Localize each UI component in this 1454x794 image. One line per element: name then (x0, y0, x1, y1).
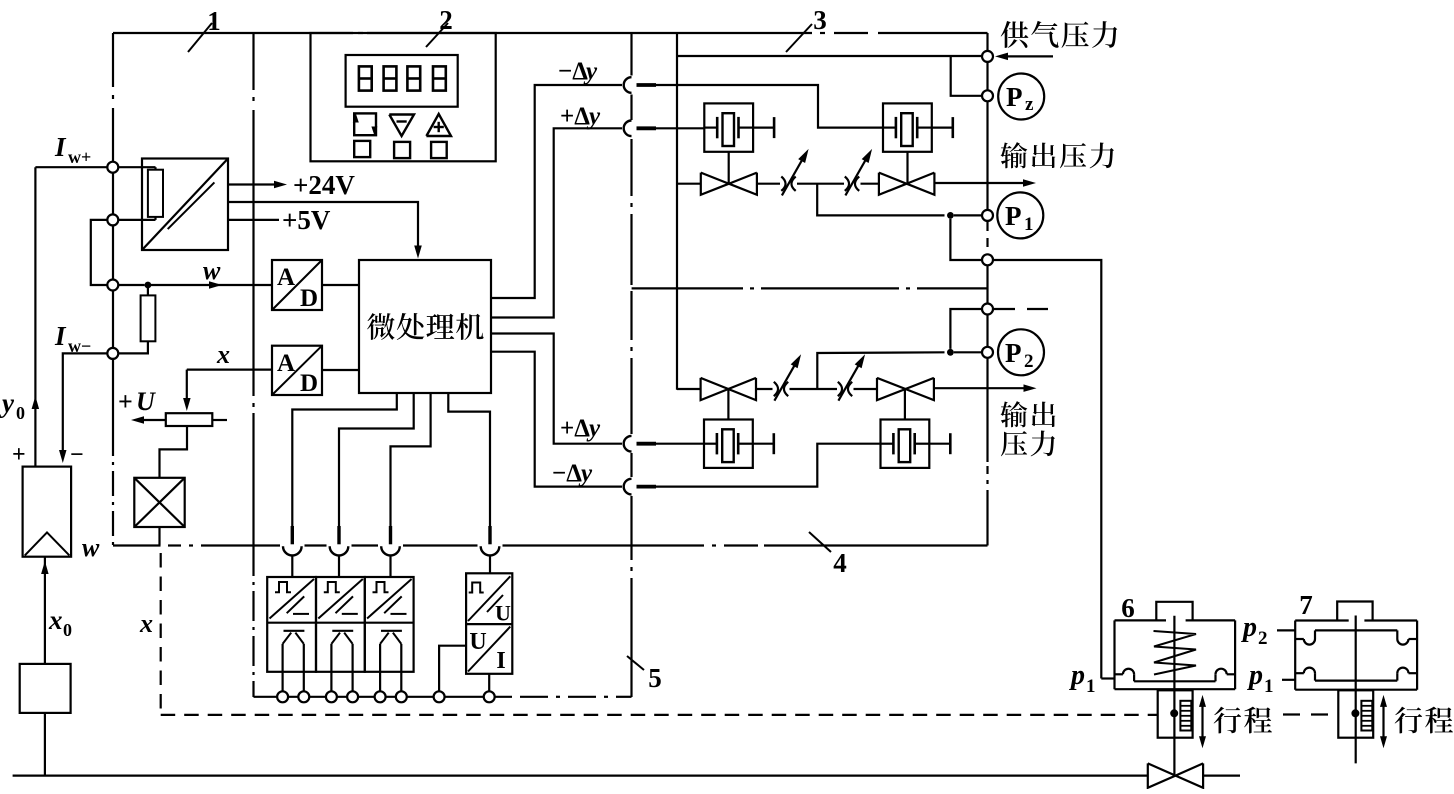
wire sensor to process line (44, 713, 46, 776)
svg-text:P: P (1006, 82, 1023, 112)
wire P1 node to output port (950, 219, 982, 260)
svg-text:1: 1 (1086, 676, 1096, 697)
piezo pilot valve V1 upper-left (704, 103, 753, 151)
wire restrictor to restrictor upper (797, 183, 844, 185)
stub p2 actuator 7 (1277, 629, 1295, 631)
connector pin +dy upper (637, 126, 657, 130)
connector pin -dy lower (637, 485, 657, 489)
wire p1 into actuator 6 (1101, 677, 1114, 679)
junction dot w node (145, 282, 152, 289)
svg-text:P: P (1005, 338, 1022, 368)
svg-text:P: P (1005, 201, 1022, 231)
potentiometer right stub (212, 419, 227, 421)
microprocessor box (359, 260, 491, 393)
wire micro bottom output C (391, 393, 431, 527)
junction dot P1 branch (947, 212, 954, 219)
port circle supply (982, 51, 993, 62)
wire valve to restrictor lower (756, 388, 773, 390)
bottom connector socket A (283, 546, 302, 555)
wire socket C down (389, 556, 391, 578)
actuator 6 body (1115, 619, 1167, 621)
enclosure 1 top border (dash-dot) (113, 32, 353, 34)
svg-text:1: 1 (1024, 214, 1034, 235)
pneumatic section right border x=987.5 (986, 33, 988, 219)
pressure gauge Pz (998, 74, 1044, 120)
dashed stub output port 2 (994, 308, 1015, 310)
restrictor 2 upper (845, 177, 849, 191)
7-segment digit 4 (433, 66, 446, 90)
svg-text:z: z (1025, 94, 1034, 115)
minus button icon (triangle down) (389, 115, 414, 137)
potentiometer wiper arrow (186, 370, 188, 402)
svg-text:0: 0 (16, 403, 25, 423)
bottom connector pin B (337, 526, 340, 544)
actuator 6 stem (1173, 616, 1175, 776)
wire resistor to Iw- terminal (118, 341, 148, 353)
svg-text:−: − (70, 442, 84, 468)
power supply converter box (142, 159, 228, 251)
wire Iw+ to feedback comparator (35, 166, 107, 168)
piezo pilot valve V3 lower-left (704, 420, 753, 468)
terminal circle U/I bottom (484, 691, 495, 702)
boundary 5 bottom y=697 (dash-dot) (254, 696, 513, 698)
valve driver module 1 (267, 577, 316, 672)
wire socket D down (489, 556, 491, 574)
dashed mechanical link x vertical (160, 553, 162, 715)
actuator 6 diaphragm chamber (1115, 673, 1123, 675)
branch to Pz gauge (951, 56, 982, 96)
wire circle1 to power supply (118, 166, 155, 168)
right border dashed section between P1 ports (986, 222, 988, 252)
callout slash 1 (188, 23, 212, 52)
exhaust valve upper (bowtie) (879, 173, 907, 195)
valve driver module 3 (365, 577, 414, 672)
wire restrictor to exhaust valve lower (854, 388, 878, 390)
actuator 7 position scale (1361, 701, 1372, 731)
svg-text:p: p (1241, 612, 1257, 643)
wire midpoint to P2 port (817, 352, 944, 389)
svg-text:y: y (586, 103, 601, 130)
label supply pressure 供气压力 (1001, 21, 1029, 48)
enclosure 1 left border (dash-dot) (112, 33, 114, 87)
svg-text:D: D (300, 370, 318, 397)
piezo valve V3 lower-left right terminator (753, 443, 774, 445)
connector pin -dy upper (637, 83, 657, 87)
driver 1 output stage symbol (284, 630, 305, 632)
actuator 6 stroke arrow (1201, 699, 1203, 744)
wire x to A/D 2 (187, 369, 272, 371)
actuator 7 body (1295, 619, 1349, 621)
svg-text:0: 0 (63, 620, 72, 640)
feedback potentiometer (166, 413, 213, 426)
port circle output 1 (982, 254, 993, 265)
signal arrow y0 up (32, 396, 39, 409)
wire midpoint to P1 port (817, 184, 944, 216)
driver 3 output stage symbol (381, 630, 402, 632)
actuator 6 stem position dot (1170, 709, 1178, 717)
svg-text:U: U (495, 601, 511, 626)
svg-text:U: U (136, 387, 156, 416)
svg-text:y: y (578, 460, 593, 487)
piezo valve V4 lower-right right terminator (929, 443, 950, 445)
wire micro bottom output B (339, 393, 414, 527)
svg-text:x: x (139, 609, 153, 638)
svg-text:A: A (277, 350, 295, 377)
callout slash 4 (809, 532, 831, 552)
wire Iw- to comparator minus input (63, 353, 108, 452)
bottom connector socket B (330, 546, 349, 555)
svg-text:2: 2 (1258, 628, 1268, 649)
piezo pilot valve V4 lower-right (881, 420, 930, 468)
svg-text:+Δ: +Δ (560, 415, 590, 442)
boundary 1/2 divider x=253 (dash-dot) (252, 33, 254, 90)
actuator 7 stroke arrow (1382, 699, 1384, 744)
terminal circle 3 (107, 280, 118, 291)
port circle output 2 (982, 304, 993, 315)
callout slash 2 (426, 23, 448, 47)
wire U/I left lead (439, 646, 466, 692)
svg-text:x: x (48, 605, 63, 635)
driver 2 output leads (330, 672, 332, 692)
wire circle2 to power supply (118, 219, 155, 221)
label output pressure upper 输出压力 (1000, 142, 1027, 168)
wire potentiometer tap to multiplier (160, 426, 188, 478)
wire restrictor to exhaust valve upper (861, 183, 879, 185)
wire socket A down (291, 556, 293, 578)
process line bottom (13, 774, 1148, 776)
wire x0 input (44, 557, 46, 664)
bottom connector pin C (389, 526, 392, 544)
restrictor 1 lower (774, 382, 778, 396)
piezo pilot valve V2 upper-right (883, 103, 932, 151)
wire dot to P2 circle (954, 351, 982, 353)
wire +24V output (228, 183, 282, 185)
wire multiplier to boundary (158, 527, 160, 546)
7-segment digit 1 (359, 66, 372, 90)
stub p1 actuator 7 (1282, 679, 1295, 681)
U/I converter box (466, 573, 512, 674)
actuator 6 bonnet (1156, 602, 1192, 621)
exhaust valve lower (bowtie) (877, 378, 906, 400)
terminal circles driver 3 (375, 691, 386, 702)
junction dot P2 branch (947, 349, 954, 356)
svg-text:p: p (1247, 660, 1263, 691)
wire micro bottom output A (292, 393, 397, 527)
bottom connector pin D (488, 526, 491, 544)
pushbutton 2 (394, 142, 410, 158)
pneumatic divider y=288 (dash-dot) (632, 287, 743, 289)
svg-text:U: U (469, 629, 486, 655)
svg-text:5: 5 (648, 663, 662, 693)
inlet valve lower (bowtie) (701, 378, 729, 400)
port circle P1 (982, 210, 993, 221)
wire A/D 2 to microprocessor (322, 369, 359, 371)
actuator 7 stem (1355, 616, 1357, 764)
callout slash 5 (627, 656, 644, 670)
7-segment digit 3 (407, 66, 420, 90)
svg-text:+: + (118, 387, 133, 416)
actuator 7 stem position dot (1351, 709, 1359, 717)
svg-text:+: + (12, 442, 26, 468)
control valve (bowtie) on process line (1148, 763, 1176, 787)
dashed mechanical link horizontal (161, 714, 1158, 716)
svg-text:+5V: +5V (282, 205, 331, 235)
pushbutton 1 (354, 141, 370, 157)
svg-text:I: I (496, 648, 505, 674)
multiplier box (134, 478, 184, 527)
terminal circles driver 1 (277, 691, 288, 702)
wire U/I bottom lead (488, 674, 490, 692)
wire micro output 4 to -dy lower (491, 352, 622, 487)
wire output pressure upper (934, 182, 1028, 184)
wire micro bottom output D (448, 393, 490, 527)
actuator 6 position scale (1180, 701, 1191, 731)
driver 1 output leads (282, 672, 284, 692)
actuator 7 bonnet (1337, 602, 1372, 621)
wire +dy to piezo V3 (656, 443, 704, 445)
svg-text:6: 6 (1121, 593, 1135, 623)
svg-text:+24V: +24V (293, 170, 355, 200)
restrictor 2 lower (838, 382, 842, 396)
wire restrictor to restrictor lower (790, 388, 838, 390)
wire valve to restrictor upper (757, 183, 780, 185)
stub piezo V4 to exhaust valve lower (904, 389, 906, 420)
svg-text:−Δ: −Δ (558, 58, 588, 85)
label stroke 行程 actuator 6 (1214, 707, 1241, 734)
bottom connector socket D (481, 546, 500, 555)
svg-text:y: y (583, 58, 598, 85)
wire w to A/D 1 (148, 284, 272, 286)
comparator box (23, 467, 72, 557)
wire rail to inlet valve upper (677, 183, 701, 185)
dashed link to actuator 7 (1283, 713, 1331, 715)
driver 2 output stage symbol (332, 630, 353, 632)
pressure gauge P2 (998, 329, 1044, 375)
restrictor 1 upper (781, 177, 785, 191)
svg-text:2: 2 (1024, 351, 1034, 372)
actuator 7 upper chamber (1295, 638, 1304, 640)
stub piezo V2 to exhaust valve (906, 152, 908, 184)
position sensor box (20, 664, 71, 713)
valve driver module 2 (316, 577, 365, 672)
wire socket B down (338, 556, 340, 578)
wire micro output 3 to +dy lower (491, 334, 622, 444)
7-segment digit 2 (384, 66, 397, 90)
connector socket +dy upper (624, 121, 632, 137)
label stroke 行程 actuator 7 (1395, 707, 1422, 734)
svg-text:w: w (203, 256, 221, 285)
input resistor (141, 295, 156, 341)
actuator 7 stem housing (1338, 690, 1373, 737)
supply inlet arrow (1006, 55, 1053, 57)
wire output pressure lower (934, 387, 1028, 389)
wire output port to actuator 6 p1 (993, 260, 1101, 679)
svg-text:x: x (216, 340, 230, 369)
svg-text:7: 7 (1299, 590, 1313, 620)
wire rail to inlet valve lower (677, 388, 701, 390)
connector pin +dy lower (637, 442, 657, 446)
piezo valve V1 upper-left right terminator (753, 126, 774, 128)
terminal circle Iw- (107, 348, 118, 359)
actuator 6 stem housing (1158, 690, 1193, 737)
mode button icon (loop) (354, 113, 376, 135)
stub piezo V3 to inlet valve lower (727, 389, 729, 420)
A/D converter 1 (272, 260, 322, 310)
wire P2 node to output port 2 (950, 309, 982, 349)
terminal circles driver 2 (326, 691, 337, 702)
svg-text:A: A (277, 264, 295, 291)
stub piezo V1 to inlet valve (728, 152, 730, 184)
plus button icon (triangle up) (426, 114, 451, 136)
svg-text:+Δ: +Δ (560, 103, 590, 130)
pushbutton 3 (431, 142, 447, 158)
wire loop terminals 2-3 (91, 220, 108, 285)
connector socket +dy lower (624, 436, 632, 452)
supply rail wire (677, 55, 982, 57)
terminal circle U/I left (434, 691, 445, 702)
boundary 5 vertical x=632 (dash-dot) (630, 33, 632, 76)
wire circle3 to w node (118, 284, 144, 286)
wire -dy to piezo V2 (656, 85, 883, 128)
svg-text:I: I (54, 132, 67, 162)
pressure gauge P1 (997, 192, 1043, 238)
bottom connector socket C (381, 546, 400, 555)
svg-text:1: 1 (1264, 676, 1274, 697)
wire +U output arrow (136, 419, 166, 421)
terminal circle Iw+ (107, 162, 118, 173)
connector socket -dy lower (624, 479, 632, 495)
svg-text:−Δ: −Δ (552, 460, 582, 487)
callout slash 3 (786, 24, 812, 52)
process line after valve (1203, 774, 1240, 776)
pneumatic block left edge x=677 (676, 33, 678, 390)
svg-text:3: 3 (813, 5, 827, 35)
wire micro output 2 to +dy upper (491, 128, 622, 317)
svg-text:y: y (0, 388, 15, 418)
A/D converter 2 (272, 346, 322, 395)
svg-text:I: I (54, 321, 67, 351)
wire +5V output (228, 219, 279, 221)
terminal circle 2 (107, 214, 118, 225)
svg-text:D: D (300, 285, 318, 312)
inlet valve upper (bowtie) (701, 173, 729, 195)
bottom connector pin A (291, 526, 294, 544)
actuator 6 spring (1154, 631, 1197, 675)
svg-text:y: y (586, 415, 601, 442)
svg-text:w: w (82, 533, 100, 562)
svg-text:1: 1 (207, 6, 221, 36)
svg-text:p: p (1069, 660, 1085, 691)
comparator chevron (25, 532, 70, 555)
wire micro output 1 to -dy upper (491, 85, 622, 298)
svg-text:2: 2 (439, 5, 453, 35)
label output pressure lower 输出压力 (1000, 401, 1027, 427)
enclosure bottom border y=545 (dash-dot) (113, 544, 161, 546)
svg-text:w+: w+ (68, 147, 91, 167)
port circle Pz (982, 90, 993, 101)
wire A/D 1 to microprocessor (322, 284, 359, 286)
connector socket -dy upper (624, 77, 632, 93)
wire dot to P1 circle (954, 214, 982, 216)
wire power to microprocessor (228, 202, 418, 247)
svg-text:4: 4 (833, 548, 847, 578)
LCD display window (346, 55, 458, 107)
driver 3 output leads (379, 672, 381, 692)
port circle P2 (982, 347, 993, 358)
wire -dy to piezo V4 (656, 444, 881, 487)
wire +dy to piezo V1 (656, 127, 704, 129)
display module enclosure 2 (311, 33, 496, 161)
power supply input transformer rect (148, 170, 163, 217)
actuator 7 lower chamber (1295, 672, 1304, 674)
piezo valve V2 upper-right right terminator (932, 126, 953, 128)
